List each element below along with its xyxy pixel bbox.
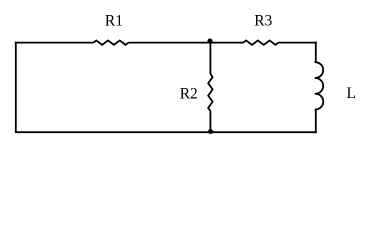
svg-text:R1: R1 <box>105 12 123 29</box>
resistor R3 <box>243 40 278 44</box>
wire bottom <box>15 131 317 133</box>
svg-text:R3: R3 <box>254 12 272 29</box>
inductor L <box>315 62 323 111</box>
wire right bottom stub <box>315 110 317 133</box>
wire node A to R3 <box>210 42 243 44</box>
node B junction dot bottom <box>208 129 213 134</box>
node A junction dot top <box>207 39 212 44</box>
resistor R1 <box>93 40 128 44</box>
wire top-left segment <box>15 42 94 44</box>
wire top-middle segment <box>129 42 211 44</box>
wire left vertical <box>15 42 17 132</box>
resistor R2 <box>208 74 212 111</box>
svg-text:L: L <box>347 85 356 102</box>
wire middle branch bottom <box>209 111 211 132</box>
svg-text:R2: R2 <box>180 85 198 102</box>
wire right top stub <box>315 42 317 62</box>
wire middle branch top <box>209 43 211 74</box>
wire R3 to top-right corner <box>278 42 316 44</box>
